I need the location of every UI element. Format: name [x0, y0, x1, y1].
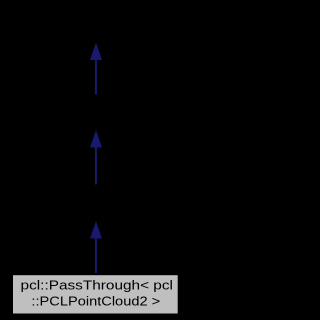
svg-text:::PCLPointCloud2 >: ::PCLPointCloud2 > [31, 293, 160, 308]
svg-text:pcl::PassThrough< pcl: pcl::PassThrough< pcl [21, 278, 173, 293]
